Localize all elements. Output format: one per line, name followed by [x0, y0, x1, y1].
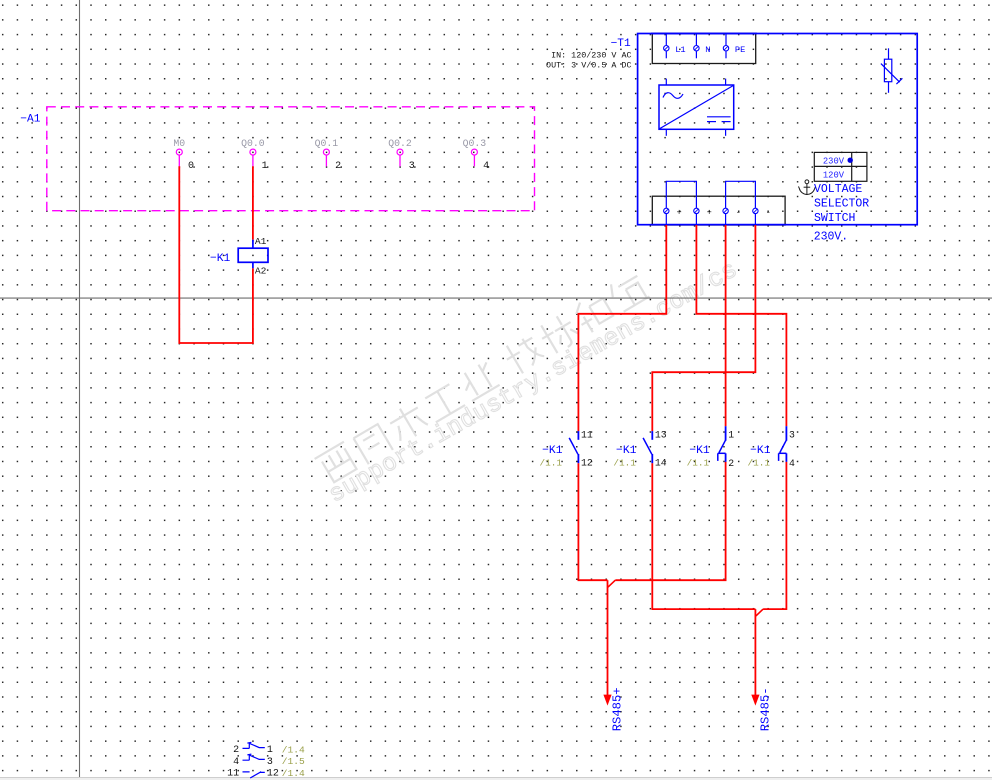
contact K1 11/12 (NO) [539, 430, 592, 469]
svg-text:−K1: −K1 [542, 445, 563, 457]
svg-text:A2: A2 [255, 266, 267, 277]
bottom window strip [0, 777, 992, 780]
svg-text:230V: 230V [823, 156, 845, 166]
svg-text:Q0.0: Q0.0 [241, 138, 265, 149]
svg-text:2: 2 [335, 161, 341, 172]
svg-text:/1.1: /1.1 [613, 457, 636, 468]
output terminal box [652, 196, 785, 225]
svg-text:VOLTAGE: VOLTAGE [814, 183, 862, 196]
T1 top edge over box [651, 33, 757, 35]
svg-text:120V: 120V [823, 171, 845, 181]
svg-text:-: - [736, 207, 741, 217]
contact K1 3/4 (NC) [747, 426, 795, 469]
output terminal + (1) [664, 207, 682, 225]
PLC output Q0.0 [241, 138, 267, 172]
svg-text:N: N [705, 45, 710, 55]
terminal PE [723, 34, 745, 59]
svg-text:4: 4 [483, 161, 489, 172]
svg-text:−K1: −K1 [210, 253, 231, 265]
svg-text:OUT: 3 V/0.5 A DC: OUT: 3 V/0.5 A DC [546, 61, 631, 71]
wire -4 to contact 13 [652, 225, 755, 431]
svg-text:RS485-: RS485- [758, 687, 772, 731]
svg-text:/1.4: /1.4 [282, 768, 305, 779]
svg-text:/1.5: /1.5 [282, 756, 305, 767]
xref row contact 2-1 [233, 742, 305, 756]
watermark URL line [325, 257, 743, 510]
svg-text:SELECTOR: SELECTOR [814, 198, 869, 211]
svg-text:3: 3 [267, 757, 273, 768]
svg-text:/1.1: /1.1 [687, 457, 710, 468]
output terminal + (2) [694, 207, 712, 225]
svg-text:RS485+: RS485+ [610, 687, 624, 731]
arrow RS485- [751, 695, 759, 706]
arrow RS485+ [603, 695, 611, 706]
relay coil K1 [238, 248, 268, 262]
svg-text:PE: PE [735, 45, 745, 55]
svg-text:14: 14 [655, 458, 667, 469]
svg-text:-: - [766, 207, 771, 217]
svg-text:−K1: −K1 [750, 445, 771, 457]
PLC output Q0.3 [463, 138, 489, 172]
svg-text:/1.1: /1.1 [539, 457, 562, 468]
svg-text:0: 0 [188, 161, 194, 172]
svg-text:1: 1 [267, 745, 273, 756]
coil K1 pin stub A1 [252, 240, 254, 249]
wire -3 to contact 1 [725, 225, 727, 426]
xref row contact 11-12 [227, 768, 305, 780]
PLC output Q0.1 [315, 138, 341, 172]
svg-text:M0: M0 [173, 138, 185, 149]
voltage selector table [814, 152, 867, 181]
junction A kink [608, 580, 615, 587]
jumper bridge terminals 1-2 [666, 181, 696, 208]
svg-text:−A1: −A1 [20, 113, 40, 125]
section line vertical [79, 0, 81, 777]
svg-text:+: + [707, 207, 712, 217]
svg-text:3: 3 [789, 429, 795, 440]
svg-text:1: 1 [728, 429, 734, 440]
svg-text:1: 1 [262, 161, 268, 172]
AC/DC converter block [659, 79, 734, 136]
wire contact 12 to junction A [578, 463, 607, 580]
svg-text:−K1: −K1 [689, 445, 710, 457]
wire Q0.0 down to coil A1 [252, 166, 254, 239]
PLC box A1 (dashed) [47, 107, 535, 211]
junction B kink [756, 609, 763, 616]
terminal N [694, 34, 711, 59]
svg-text:12: 12 [581, 458, 593, 469]
output terminal - (4) [753, 207, 771, 225]
PLC output M0 [173, 138, 194, 172]
coil K1 pin stub A2 [252, 262, 254, 268]
svg-text:230V.: 230V. [814, 231, 849, 244]
wire junction A down [607, 580, 609, 696]
svg-text:11: 11 [581, 430, 593, 441]
varistor F1 [881, 48, 903, 93]
svg-text:Q0.2: Q0.2 [388, 138, 412, 149]
jumper bridge terminals 3-4 [726, 181, 756, 208]
wire junction B down [754, 609, 756, 696]
wire contact 2 down to bus [615, 462, 725, 580]
section line horizontal [0, 297, 992, 299]
wire M0 down/around to coil A2 [179, 166, 253, 343]
wire +1 to contact 11 [578, 225, 666, 431]
contact K1 1/2 (NC) [687, 426, 735, 469]
svg-text:/1.4: /1.4 [282, 744, 305, 755]
svg-text:A1: A1 [255, 236, 267, 247]
WATERMARK [315, 257, 743, 510]
terminal L1 [664, 34, 686, 59]
svg-text:IN: 120/230 V AC: IN: 120/230 V AC [551, 51, 631, 61]
output terminal - (3) [723, 207, 741, 225]
svg-text:+: + [677, 207, 682, 217]
svg-text:2: 2 [728, 458, 734, 469]
watermark CJK line [315, 271, 651, 487]
contact K1 13/14 (NO) [613, 430, 666, 469]
svg-text:Q0.3: Q0.3 [463, 138, 487, 149]
xref row contact 4-3 [233, 754, 305, 768]
power supply unit T1 outline [638, 34, 918, 225]
svg-text:2: 2 [233, 745, 239, 756]
svg-text:13: 13 [655, 430, 667, 441]
svg-text:3: 3 [409, 161, 415, 172]
anchor symbol [799, 180, 816, 195]
svg-text:SWITCH: SWITCH [814, 212, 855, 225]
svg-text:−K1: −K1 [616, 445, 637, 457]
svg-text:12: 12 [267, 768, 279, 779]
wire contact 4 down to bus [763, 462, 786, 609]
wire contact 14 to junction B [652, 463, 755, 609]
svg-text:Q0.1: Q0.1 [315, 138, 339, 149]
svg-text:−T1: −T1 [611, 38, 631, 50]
svg-text:4: 4 [789, 458, 795, 469]
svg-text:/1.1: /1.1 [747, 457, 770, 468]
PLC output Q0.2 [388, 138, 414, 172]
T1 bottom edge over box [651, 224, 786, 226]
svg-text:4: 4 [233, 757, 239, 768]
svg-text:L1: L1 [675, 45, 685, 55]
svg-text:11: 11 [227, 768, 239, 779]
input terminal box L1/N/PE [652, 34, 755, 64]
wire +2 to contact 3 [696, 225, 786, 426]
